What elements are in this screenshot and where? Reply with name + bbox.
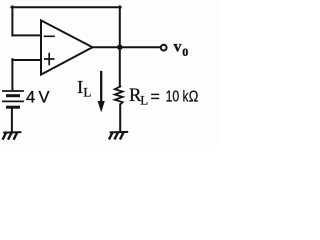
wire: battery top lead bbox=[11, 59, 13, 90]
wire: feedback left vertical down to inverting input bbox=[11, 6, 13, 35]
svg-text:v: v bbox=[174, 38, 182, 55]
op-amp U1 bbox=[41, 20, 93, 74]
op-amp noninverting input plus sign bbox=[45, 54, 54, 65]
svg-text:L: L bbox=[140, 92, 148, 107]
resistor RL zigzag bbox=[115, 86, 123, 104]
terminal: output vo open circle bbox=[161, 45, 167, 51]
current arrow IL bbox=[100, 72, 102, 104]
wire: noninverting input horizontal bbox=[12, 59, 41, 61]
svg-text:L: L bbox=[83, 85, 91, 100]
svg-text:I: I bbox=[77, 77, 83, 97]
battery B1 plates bbox=[3, 91, 23, 107]
wire: output node down to resistor RL bbox=[119, 47, 121, 86]
wire: feedback top horizontal bbox=[11, 6, 120, 8]
svg-text:0: 0 bbox=[182, 45, 188, 59]
wire: resistor bottom lead bbox=[119, 104, 121, 131]
wire: inverting input horizontal bbox=[12, 34, 41, 36]
junction: output node bbox=[117, 45, 122, 50]
svg-text:Ω: Ω bbox=[189, 88, 199, 105]
wire: battery bottom lead bbox=[11, 108, 13, 132]
svg-text:10: 10 bbox=[166, 88, 180, 105]
ground: below battery bbox=[3, 132, 20, 139]
wire: feedback right vertical (output node up) bbox=[119, 6, 121, 47]
wire: op-amp output to terminal bbox=[93, 46, 161, 48]
svg-text:4 V: 4 V bbox=[26, 88, 50, 106]
ground: below resistor RL bbox=[110, 132, 128, 139]
op-amp inverting input minus sign bbox=[45, 35, 55, 37]
svg-text:=: = bbox=[151, 88, 160, 105]
